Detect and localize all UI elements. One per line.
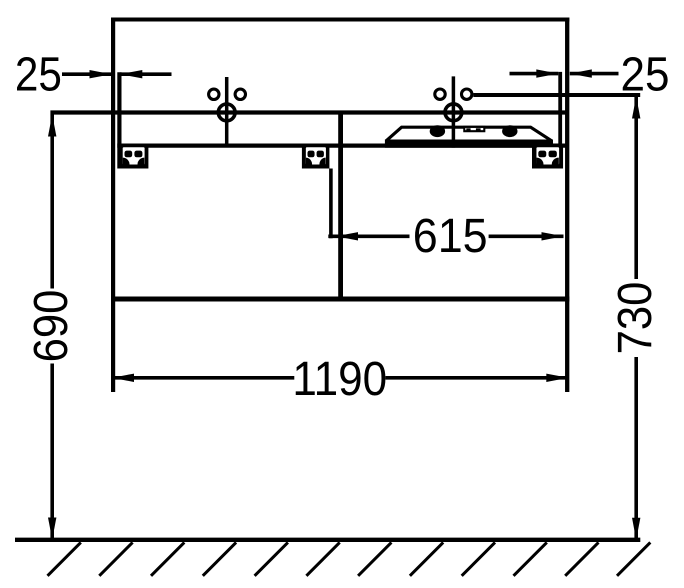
- right drawer bracket: [532, 145, 563, 169]
- left faucet ring: [218, 104, 235, 121]
- basin bottom band: [385, 140, 553, 148]
- overflow dot left: [466, 128, 470, 131]
- basin outline: [386, 127, 551, 141]
- ground hatch: [48, 542, 651, 575]
- svg-text:25: 25: [15, 48, 62, 101]
- svg-text:1190: 1190: [292, 353, 387, 406]
- right faucet centerline: [452, 76, 456, 147]
- dim 25 right: line and arrows: [510, 72, 559, 76]
- cabinet left edge: [111, 18, 115, 393]
- 615 extension line: [329, 169, 333, 239]
- right faucet ring: [445, 104, 462, 121]
- inner left panel line: [117, 72, 121, 168]
- dim 25 left: line and arrows: [62, 72, 112, 76]
- svg-text:690: 690: [25, 290, 78, 363]
- dim 615: line and arrows: [328, 235, 409, 239]
- basin overflow box: [464, 127, 484, 131]
- left faucet small circle right: [235, 89, 245, 99]
- left faucet centerline: [225, 77, 229, 146]
- middle drawer bracket: [302, 145, 330, 169]
- left drawer bracket: [118, 145, 148, 169]
- countertop line: [50, 110, 569, 114]
- svg-text:615: 615: [413, 210, 488, 263]
- 730 reference line: [473, 93, 640, 97]
- dim 1190: line and arrows: [112, 376, 295, 380]
- rail line: [117, 144, 567, 148]
- inner right panel line: [558, 72, 562, 169]
- overflow dot right: [476, 128, 481, 131]
- dim 690: line and arrows: [50, 115, 54, 289]
- svg-text:730: 730: [609, 282, 662, 355]
- basin right drain: [502, 125, 517, 137]
- cabinet right edge: [565, 18, 569, 393]
- right faucet small circle left: [435, 89, 445, 99]
- cabinet bottom edge: [111, 297, 569, 302]
- basin left drain: [430, 125, 445, 137]
- cabinet top edge: [111, 18, 569, 22]
- dim 730: line and arrows: [634, 97, 638, 280]
- svg-text:25: 25: [621, 49, 670, 102]
- left faucet small circle left: [209, 89, 219, 99]
- middle divider: [338, 111, 343, 302]
- right faucet small circle right: [462, 89, 472, 99]
- ground line: [15, 538, 640, 542]
